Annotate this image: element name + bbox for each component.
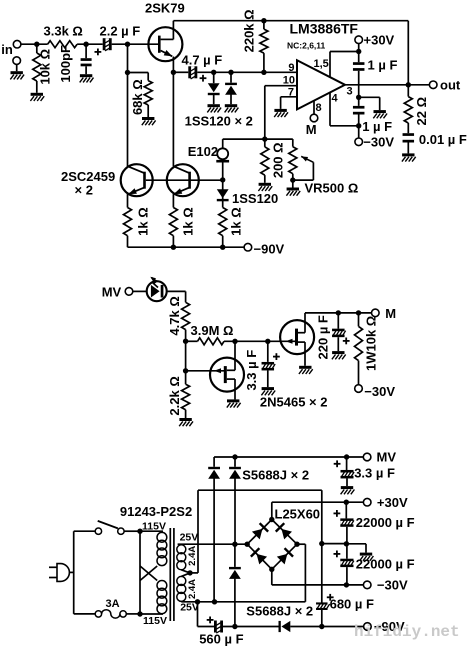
pin 8 wire: [313, 101, 315, 115]
terminal M middle: [372, 306, 397, 321]
wire Q5 source to ground: [299, 342, 313, 374]
wire R3.3k to C2.2u: [77, 42, 103, 47]
wire E102 drop: [222, 139, 224, 148]
capacitor 22000uF upper: [334, 502, 354, 546]
label 3.9M: [191, 323, 234, 338]
label 115V bottom: [143, 615, 167, 627]
wire base connection: [146, 179, 223, 181]
transformer secondary winding 2: [177, 573, 190, 602]
svg-text:3.3k Ω: 3.3k Ω: [44, 24, 83, 39]
wire 3.9M to FET2 gate: [224, 339, 296, 344]
resistor 1k right: [219, 208, 227, 248]
label 1SS120 x2: [185, 113, 253, 128]
resistor 1k middle: [169, 208, 177, 248]
resistor 4.7k: [182, 302, 190, 341]
transformer primary cross: [140, 566, 157, 581]
wire E102 to diode: [220, 163, 225, 208]
label VR500: [305, 181, 359, 196]
switch S1: [95, 521, 124, 535]
wire Q1 drain to feedback rail: [172, 21, 174, 40]
diode D6 S5688J: [229, 457, 241, 544]
label E102: [188, 144, 218, 159]
terminal +30V: [355, 32, 395, 47]
label 115V top: [142, 521, 166, 533]
wire -90V rail: [223, 624, 279, 629]
label 2.2k: [167, 376, 182, 415]
label out: [440, 78, 461, 93]
svg-text:220 µ F: 220 µ F: [315, 315, 330, 359]
svg-text:2.4A: 2.4A: [187, 579, 198, 599]
svg-text:1k Ω: 1k Ω: [229, 207, 244, 236]
label 2N5465 x2: [260, 395, 328, 410]
transformer secondary winding 1: [177, 545, 190, 573]
svg-text:2.4A: 2.4A: [187, 546, 198, 566]
terminal -30V supply: [363, 578, 408, 593]
capacitor 220uF electrolytic: [332, 313, 350, 359]
input ground terminal: [10, 57, 24, 80]
pin 1,5 label: [314, 58, 329, 70]
wire output line: [345, 82, 429, 87]
pin 7 wire and ground: [274, 97, 297, 117]
svg-text:−30V: −30V: [364, 384, 395, 399]
capacitor 1uF upper: [353, 62, 365, 71]
label 200ohm: [271, 142, 286, 178]
svg-text:NC:2,6,11: NC:2,6,11: [287, 41, 326, 51]
transformer core: [170, 528, 174, 621]
label 1W10k: [364, 316, 379, 371]
svg-text:2.2 µ F: 2.2 µ F: [100, 24, 141, 39]
transistor Q4 2N5465: [210, 358, 244, 392]
terminal out: [429, 81, 437, 89]
transistor Q3 2SC2459: [167, 164, 199, 196]
node input terminal: [1, 40, 21, 57]
wire feedback drop to output: [407, 21, 409, 85]
resistor 10k: [33, 44, 41, 93]
label S5688J x2 top: [242, 468, 309, 483]
wire to -30V: [356, 115, 361, 139]
fuse F1 3A: [95, 610, 126, 618]
transistor Q5 2N5465: [280, 320, 314, 354]
label 1SS120: [232, 191, 278, 206]
svg-text:−30V: −30V: [363, 135, 394, 150]
label 100pF: [58, 45, 73, 83]
wire switch to primary: [124, 530, 140, 532]
capacitor 0.01uF: [402, 133, 416, 161]
wire pin9 line: [173, 70, 297, 75]
terminal MV supply: [363, 450, 396, 465]
label 2SC2459: [61, 169, 115, 198]
svg-text:22000 µ F: 22000 µ F: [356, 515, 415, 530]
wire to fuse: [74, 613, 96, 615]
pin 4 label: [332, 93, 339, 105]
svg-text:1,5: 1,5: [314, 58, 329, 70]
label 25V top: [180, 532, 199, 544]
LED D4: [147, 277, 167, 302]
svg-text:115V: 115V: [143, 615, 167, 627]
svg-text:1k Ω: 1k Ω: [181, 207, 196, 236]
potentiometer VR500: [286, 139, 313, 196]
node R4.7k bottom: [183, 339, 188, 344]
wire LED to R4.7k: [167, 291, 186, 302]
label 4.7k: [167, 296, 182, 335]
svg-text:68k Ω: 68k Ω: [130, 79, 145, 115]
wire gate node down: [125, 44, 130, 166]
svg-text:22 Ω: 22 Ω: [414, 97, 429, 126]
label LM3886TF: [290, 21, 359, 37]
svg-text:2.2k Ω: 2.2k Ω: [167, 376, 182, 415]
svg-text:1 µ F: 1 µ F: [362, 119, 392, 134]
svg-text:−30V: −30V: [377, 578, 408, 593]
svg-text:S5688J × 2: S5688J × 2: [242, 468, 309, 483]
label 2.4A upper: [187, 546, 198, 566]
pin 10 label: [283, 74, 295, 86]
transformer primary winding 1: [140, 531, 167, 565]
svg-text:3.3 µ F: 3.3 µ F: [244, 350, 259, 391]
label NC pins: [287, 41, 326, 51]
label 4.7uF: [182, 53, 223, 68]
svg-text:2N5465 × 2: 2N5465 × 2: [260, 395, 328, 410]
capacitor 1uF lower: [353, 106, 365, 115]
label 3.3uF middle: [244, 350, 259, 391]
resistor 3.3k: [48, 41, 78, 48]
pin 3 label: [347, 86, 353, 98]
wire bridge plus to +30V: [272, 500, 364, 520]
label 2.2uF: [100, 24, 141, 39]
label transformer 91243-P2S2: [120, 504, 192, 519]
transistor Q2 2SC2459: [121, 164, 153, 196]
svg-text:91243-P2S2: 91243-P2S2: [120, 504, 192, 519]
wire -90V rail top circuit: [128, 245, 245, 250]
terminal +30V supply: [363, 495, 408, 510]
ground caps midpoint: [346, 544, 373, 561]
wire center tap to ground mid: [190, 490, 324, 573]
ground stub mid supply: [359, 97, 387, 118]
pin 7 label: [288, 87, 294, 99]
svg-text:M: M: [385, 306, 396, 321]
wire Q3 emitter down: [172, 194, 174, 207]
terminal -30V: [355, 135, 394, 150]
wire to switch: [74, 530, 96, 532]
svg-text:8: 8: [316, 102, 322, 114]
svg-text:4.7 µ F: 4.7 µ F: [182, 53, 223, 68]
label 22000uF upper: [356, 515, 415, 530]
capacitor 680uF electrolytic: [316, 544, 334, 630]
label 560uF: [199, 632, 243, 647]
capacitor 3.3uF supply: [334, 457, 355, 494]
wire fuse to primary: [126, 613, 140, 615]
svg-text:× 2: × 2: [75, 183, 93, 198]
capacitor 3.3uF electrolytic: [261, 341, 279, 395]
svg-text:in: in: [1, 42, 13, 57]
capacitor 560uF electrolytic: [207, 617, 223, 634]
wire +30V down: [356, 44, 361, 63]
capacitor 4.7uF electrolytic: [188, 66, 206, 81]
svg-text:1W10k Ω: 1W10k Ω: [364, 316, 379, 371]
svg-text:S5688J × 2: S5688J × 2: [246, 604, 313, 619]
svg-text:3.3 µ F: 3.3 µ F: [354, 466, 395, 481]
wire to 3.9M: [186, 340, 198, 342]
watermark: [354, 623, 460, 641]
transistor Q1 2SK79: [148, 27, 182, 61]
capacitor 2.2uF electrolytic: [95, 38, 112, 55]
op-amp U1 LM3886TF: [297, 60, 345, 109]
diode D3 1SS120: [217, 189, 229, 201]
bridge rectifier L25X60: [245, 517, 300, 572]
terminal M pin8: [310, 114, 318, 122]
wire FET1 gate: [186, 368, 225, 373]
terminal MV: [102, 284, 133, 299]
wire Q4 source to ground: [227, 379, 241, 408]
resistor 200ohm: [258, 139, 272, 191]
svg-text:+30V: +30V: [377, 495, 408, 510]
svg-text:MV: MV: [102, 284, 122, 299]
wire center tap to caps midpoint: [322, 543, 347, 545]
svg-text:−90V: −90V: [254, 242, 285, 257]
wire MV to LED: [133, 290, 147, 292]
wire AC bottom: [181, 599, 305, 604]
svg-text:hifidiy.net: hifidiy.net: [354, 623, 460, 641]
resistor 3.9M: [198, 338, 225, 345]
svg-text:L25X60: L25X60: [275, 507, 321, 522]
diode D8 S5688J: [279, 621, 291, 632]
svg-text:220k Ω: 220k Ω: [242, 9, 257, 52]
label 10k: [38, 49, 53, 85]
svg-text:1 µ F: 1 µ F: [368, 58, 398, 73]
wire Q1 source: [171, 57, 176, 167]
pin 10 wire: [265, 85, 297, 87]
wire C2.2u to Q1 gate: [112, 42, 158, 47]
resistor 2.2k: [179, 371, 193, 426]
svg-text:25V: 25V: [180, 532, 199, 544]
label 1uF upper: [368, 58, 398, 73]
svg-text:+30V: +30V: [364, 32, 395, 47]
resistor 220k: [260, 21, 268, 73]
diode D2 1SS120: [225, 72, 239, 112]
label 25V bottom: [180, 602, 199, 614]
wire Q4 drain up: [234, 341, 236, 370]
svg-text:E102: E102: [188, 144, 218, 159]
svg-text:680 µ F: 680 µ F: [330, 597, 374, 612]
wire plug to split: [69, 531, 73, 614]
terminal -90V supply: [364, 619, 405, 634]
transformer primary bus: [137, 529, 142, 617]
capacitor 100pF: [80, 44, 94, 82]
label 3A: [106, 598, 120, 610]
capacitor 22000uF lower: [334, 544, 354, 588]
resistor 1k left: [124, 208, 132, 248]
wire feedback rail: [173, 18, 408, 23]
svg-text:1k Ω: 1k Ω: [136, 207, 151, 236]
label 1k left: [136, 207, 151, 236]
label 22000uF lower: [356, 556, 415, 571]
label 2.4A lower: [187, 579, 198, 599]
svg-text:4.7k Ω: 4.7k Ω: [167, 296, 182, 335]
label 3.3uF supply: [354, 466, 395, 481]
svg-text:3: 3: [347, 86, 353, 98]
svg-text:200 Ω: 200 Ω: [271, 142, 286, 178]
transformer primary winding 2: [140, 581, 167, 615]
label 220uF: [315, 315, 330, 359]
wire bias horizontal: [223, 138, 293, 140]
wire input to R 3.3k: [21, 42, 48, 47]
label L25X60: [275, 507, 321, 522]
wire bridge minus to -30V: [272, 569, 364, 585]
ground under 10k: [30, 93, 44, 101]
svg-text:0.01 µ F: 0.01 µ F: [419, 132, 467, 147]
wire between caps: [356, 71, 361, 106]
svg-text:2SK79: 2SK79: [145, 1, 185, 16]
svg-text:22000 µ F: 22000 µ F: [356, 556, 415, 571]
wire MV rail: [214, 454, 363, 459]
label 680uF: [330, 597, 374, 612]
label 2SK79: [145, 1, 185, 16]
resistor 68k: [128, 73, 153, 118]
diode D5 S5688J: [208, 457, 220, 602]
svg-text:10: 10: [283, 74, 295, 86]
resistor 22ohm: [404, 85, 412, 133]
pin 1,5 wire: [330, 52, 359, 78]
wire pin10 node down: [262, 86, 267, 142]
label 1k right: [229, 207, 244, 236]
battery E102: [216, 148, 229, 162]
pin 9 label: [288, 62, 294, 74]
wire diode to -90V: [290, 626, 363, 628]
svg-text:10k Ω: 10k Ω: [38, 49, 53, 85]
wire AC top: [178, 542, 248, 547]
svg-text:4: 4: [332, 93, 339, 105]
ground under 68k: [142, 117, 156, 125]
svg-text:1SS120: 1SS120: [232, 191, 278, 206]
label 1k middle: [181, 207, 196, 236]
svg-text:out: out: [440, 78, 461, 93]
wire down to FET1 gate: [183, 341, 188, 373]
wire bridge right leg: [297, 544, 305, 602]
diode D7 S5688J: [229, 544, 241, 626]
wire Q2 emitter down: [127, 194, 129, 207]
svg-text:100pF: 100pF: [58, 45, 73, 83]
label 220k: [242, 9, 257, 52]
svg-text:7: 7: [288, 87, 294, 99]
label 0.01uF: [419, 132, 467, 147]
label M under pin8: [306, 122, 317, 137]
pin 8 label: [316, 102, 322, 114]
svg-text:3A: 3A: [106, 598, 120, 610]
diode D1 1SS120: [207, 72, 221, 112]
node center tap: [187, 570, 192, 575]
pin 4 wire: [330, 93, 359, 126]
wire Q5 drain up: [305, 310, 372, 333]
label 68k: [130, 79, 145, 115]
label S5688J x2 bottom: [246, 604, 313, 619]
label 22ohm: [414, 97, 429, 126]
svg-text:1SS120 × 2: 1SS120 × 2: [185, 113, 253, 128]
svg-text:M: M: [306, 122, 317, 137]
svg-text:560 µ F: 560 µ F: [199, 632, 243, 647]
wire 560uF leg: [198, 602, 215, 627]
terminal -30V middle: [355, 384, 396, 399]
svg-text:MV: MV: [377, 450, 397, 465]
svg-text:LM3886TF: LM3886TF: [290, 21, 359, 37]
AC plug: [49, 564, 69, 582]
label 1uF lower: [362, 119, 392, 134]
svg-text:9: 9: [288, 62, 294, 74]
svg-text:3.9M Ω: 3.9M Ω: [191, 323, 234, 338]
resistor 1W10k: [355, 313, 363, 385]
terminal -90V top circuit: [244, 242, 284, 257]
svg-text:VR500 Ω: VR500 Ω: [305, 181, 359, 196]
label 3.3k: [44, 24, 83, 39]
